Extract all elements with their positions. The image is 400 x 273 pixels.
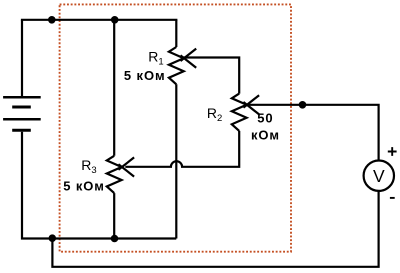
wire battery bottom lead (21, 132, 176, 240)
label minus (voltmeter polarity) (390, 197, 395, 199)
dashed box (device boundary) (60, 4, 291, 251)
wire R3 branch top (113, 20, 115, 156)
resistor R2 zigzag (232, 94, 247, 131)
wire top rail (21, 19, 178, 21)
voltmeter V1 circle (364, 161, 394, 191)
resistor R1 zigzag (169, 47, 184, 84)
svg-text:кОм: кОм (251, 128, 280, 143)
wire R1 branch bottom (175, 84, 177, 238)
wire R2 wiper to voltmeter (246, 105, 379, 160)
node junction dot top R3 branch (111, 16, 119, 24)
R2 wiper arrow (243, 95, 259, 114)
wire R3 branch bottom (113, 193, 115, 238)
svg-text:5 кОм: 5 кОм (63, 178, 105, 193)
svg-text:50: 50 (257, 111, 273, 126)
node junction dot bottom R3 branch (111, 235, 119, 243)
battery plate short bottom (12, 129, 31, 132)
svg-text:V: V (373, 166, 385, 186)
wire battery top lead (21, 20, 23, 96)
resistor R3 zigzag (107, 156, 122, 193)
svg-text:R3: R3 (81, 157, 96, 176)
node junction dot top left (48, 16, 56, 24)
R3 wiper arrow (118, 157, 134, 176)
wire R2 bottom with hop over R1 branch (125, 131, 239, 167)
svg-text:R2: R2 (207, 105, 222, 124)
wire R1 wiper to R2 top (183, 58, 239, 94)
svg-text:R1: R1 (148, 49, 163, 68)
wire voltmeter bottom loop (52, 191, 378, 267)
label plus (voltmeter polarity) (388, 147, 397, 156)
battery plate long top (3, 96, 41, 99)
battery plate long lower (3, 118, 41, 121)
node junction dot bottom left (49, 234, 57, 242)
node junction dot voltmeter tap (299, 101, 307, 109)
battery plate short upper (12, 106, 31, 109)
svg-text:5 кОм: 5 кОм (124, 68, 166, 83)
R1 wiper arrow (181, 49, 197, 68)
wire R1 branch top (175, 20, 177, 47)
